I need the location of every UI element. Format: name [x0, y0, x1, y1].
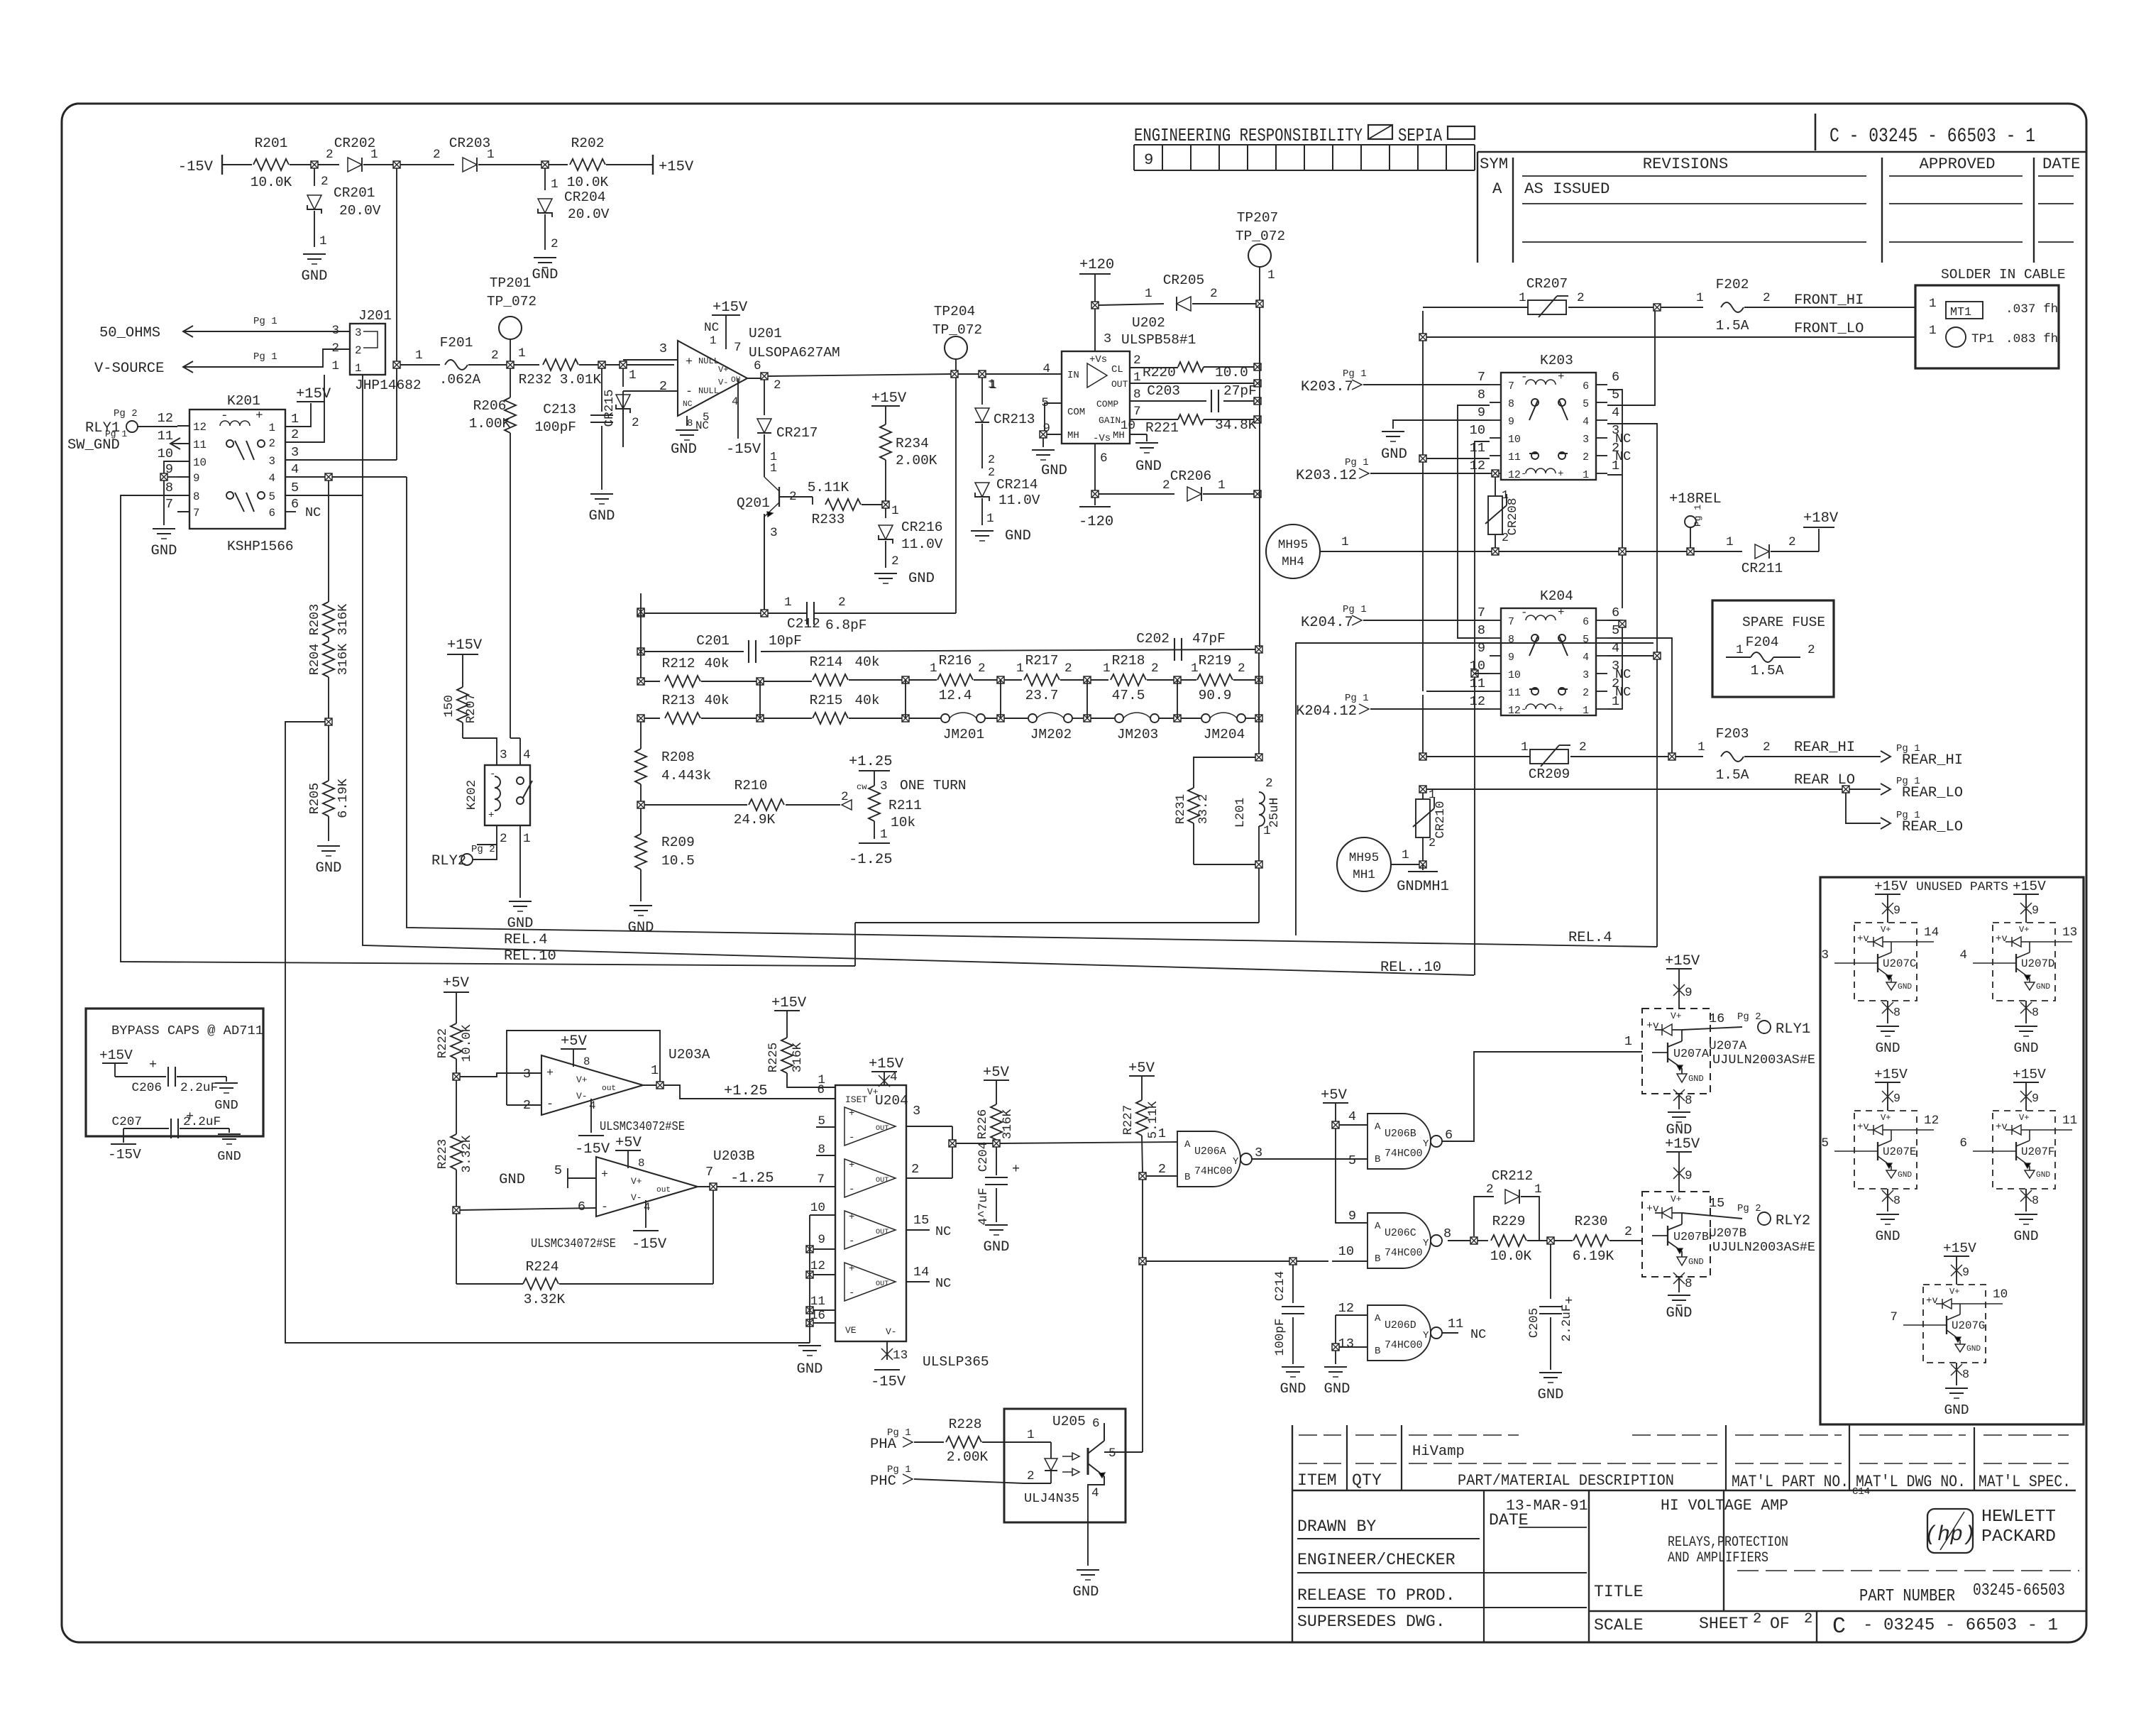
- svg-text:-: -: [849, 1236, 854, 1247]
- svg-text:V+: V+: [1881, 1113, 1891, 1123]
- parts list / title block grid: [1292, 1425, 1293, 1642]
- nand gate U206D 74HC00: [1368, 1305, 1431, 1361]
- svg-text:1: 1: [1402, 848, 1409, 862]
- U201 -15V supply: [737, 378, 739, 439]
- svg-text:14: 14: [913, 1265, 929, 1280]
- svg-text:11: 11: [1448, 1317, 1463, 1331]
- unused driver U207G: [1923, 1285, 1986, 1363]
- svg-text:6.8pF: 6.8pF: [825, 617, 867, 633]
- ladder column joiners: [759, 681, 761, 718]
- K201 pin1 wire to +15V: [285, 403, 311, 427]
- svg-text:MH: MH: [1067, 430, 1079, 441]
- svg-text:-: -: [849, 1287, 854, 1299]
- jumper JM203: [1115, 714, 1123, 723]
- svg-text:BYPASS CAPS @ AD711: BYPASS CAPS @ AD711: [111, 1023, 263, 1038]
- svg-text:FRONT_LO: FRONT_LO: [1794, 321, 1864, 337]
- ground below C204: [985, 1224, 1008, 1226]
- svg-text:2: 2: [1804, 1611, 1812, 1627]
- K201 coil: [220, 421, 250, 426]
- svg-text:CL: CL: [1111, 364, 1123, 375]
- svg-text:C205: C205: [1527, 1308, 1541, 1338]
- svg-text:9: 9: [1478, 405, 1485, 420]
- junction at TP201: [507, 361, 514, 368]
- mounting hole MH1: [1337, 837, 1391, 891]
- svg-text:Pg 1: Pg 1: [253, 316, 277, 327]
- capacitor C203 27pF: [1130, 400, 1206, 402]
- U204 amp2: [844, 1159, 896, 1197]
- svg-text:-15V: -15V: [871, 1374, 906, 1390]
- svg-text:NC: NC: [935, 1224, 951, 1239]
- resistor R224 3.32K feedback: [456, 1214, 457, 1284]
- resistor R208 4.443k: [640, 722, 642, 749]
- junction CR207/F202: [1653, 304, 1661, 311]
- K204 contacts: [1531, 634, 1539, 642]
- K201 pin4 wire to divider and REL.4 riser: [285, 476, 325, 478]
- ladder return wire to lower-left: [1258, 868, 1260, 923]
- U207A pin 8 ground: [1678, 1094, 1680, 1109]
- junction CR203/CR204: [541, 161, 549, 168]
- testpoint TP207 TP_072: [1248, 244, 1271, 267]
- svg-text:GND: GND: [1041, 463, 1067, 479]
- svg-text:GND: GND: [316, 860, 342, 877]
- svg-text:3: 3: [355, 326, 361, 339]
- svg-text:V+: V+: [2019, 925, 2030, 935]
- wire R208 node to R210: [644, 804, 747, 806]
- net REL.4 wire: [407, 477, 1657, 947]
- svg-text:ULSPB58#1: ULSPB58#1: [1121, 332, 1196, 348]
- K202 pin2 RLY2: [496, 825, 497, 845]
- svg-text:10: 10: [1508, 434, 1521, 446]
- resistor R204 316K: [328, 637, 329, 642]
- ground at C207: [218, 1133, 241, 1135]
- svg-text:R209: R209: [661, 835, 695, 850]
- zener CR204 20.0V: [544, 168, 546, 190]
- svg-text:OUT: OUT: [1111, 379, 1128, 390]
- K204 bottom coil: [1526, 704, 1556, 709]
- svg-text:K201: K201: [227, 393, 260, 409]
- svg-text:7: 7: [1133, 405, 1141, 419]
- svg-text:Pg 2: Pg 2: [471, 844, 495, 855]
- svg-text:10.0K: 10.0K: [1490, 1248, 1532, 1264]
- svg-text:F204: F204: [1746, 634, 1779, 650]
- svg-text:Pg 2: Pg 2: [114, 408, 138, 419]
- svg-text:FRONT_HI: FRONT_HI: [1794, 292, 1864, 309]
- svg-text:2: 2: [551, 237, 558, 251]
- svg-text:R201: R201: [255, 136, 288, 151]
- U202 output bus TP207 riser: [1259, 307, 1260, 647]
- capacitor C207 2.2uF: [123, 1128, 169, 1129]
- junction on F201 node: [393, 361, 400, 368]
- svg-text:PHA: PHA: [870, 1436, 897, 1453]
- K204 top coil: [1526, 615, 1556, 620]
- svg-text:10: 10: [158, 446, 173, 461]
- svg-text:DATE: DATE: [2042, 155, 2081, 173]
- svg-text:+5V: +5V: [983, 1065, 1010, 1081]
- svg-text:90.9: 90.9: [1199, 688, 1232, 703]
- svg-text:2: 2: [1162, 478, 1170, 493]
- svg-text:9: 9: [818, 1233, 825, 1247]
- svg-text:GND: GND: [984, 1239, 1010, 1256]
- svg-text:R204: R204: [307, 644, 322, 676]
- U205 LED: [1024, 1441, 1051, 1443]
- svg-text:+: +: [849, 1160, 854, 1171]
- svg-text:6: 6: [1959, 1136, 1967, 1150]
- svg-text:3: 3: [880, 779, 888, 793]
- svg-text:MAT'L SPEC.: MAT'L SPEC.: [1979, 1473, 2071, 1491]
- svg-text:6: 6: [269, 507, 275, 520]
- svg-text:74HC00: 74HC00: [1194, 1166, 1233, 1177]
- svg-text:1.5A: 1.5A: [1751, 663, 1784, 679]
- svg-text:CR207: CR207: [1526, 276, 1568, 292]
- svg-text:-: -: [1521, 606, 1527, 619]
- U204 outputs join: [923, 1126, 952, 1127]
- svg-text:4: 4: [1959, 948, 1967, 962]
- svg-text:3: 3: [913, 1104, 920, 1119]
- U206C B input bus wire: [1146, 1260, 1328, 1262]
- svg-text:2: 2: [1486, 1182, 1494, 1197]
- svg-text:REL.10: REL.10: [504, 948, 556, 965]
- svg-text:9: 9: [193, 472, 199, 485]
- svg-text:6: 6: [1092, 1417, 1100, 1431]
- resistor R203 316K: [328, 480, 329, 602]
- svg-text:Pg 1: Pg 1: [1343, 368, 1367, 380]
- U201 gnd: [686, 416, 688, 426]
- svg-text:316K: 316K: [336, 643, 351, 675]
- svg-text:U206B: U206B: [1385, 1128, 1416, 1140]
- U203A feedback to inverting input: [507, 1031, 660, 1105]
- svg-text:2: 2: [988, 466, 995, 480]
- resistor R201 10.0K: [253, 159, 289, 170]
- svg-text:R230: R230: [1575, 1214, 1608, 1229]
- svg-text:.062A: .062A: [439, 372, 481, 388]
- U207E input wire: [1834, 1150, 1860, 1152]
- svg-text:U207A: U207A: [1673, 1048, 1709, 1061]
- svg-text:REVISIONS: REVISIONS: [1643, 155, 1728, 173]
- svg-text:+5V: +5V: [1128, 1060, 1155, 1077]
- svg-text:2: 2: [355, 344, 361, 357]
- svg-text:2: 2: [1763, 740, 1771, 754]
- svg-text:CR209: CR209: [1529, 767, 1570, 782]
- K204 pin stubs: [1490, 620, 1501, 621]
- svg-text:7: 7: [1508, 381, 1514, 392]
- svg-text:12: 12: [158, 411, 173, 426]
- svg-text:50_OHMS: 50_OHMS: [99, 325, 160, 341]
- svg-text:+15V: +15V: [1943, 1241, 1976, 1256]
- svg-text:10.0K: 10.0K: [567, 175, 609, 190]
- svg-text:316K: 316K: [1001, 1109, 1015, 1139]
- U206C output row to R229: [1448, 1240, 1470, 1241]
- svg-text:9: 9: [1685, 1169, 1693, 1183]
- svg-text:2: 2: [1583, 688, 1589, 699]
- svg-text:2.2uF: 2.2uF: [180, 1081, 218, 1095]
- nand gate U206A 74HC00: [1177, 1131, 1240, 1187]
- junction R229/R230: [1547, 1237, 1554, 1244]
- svg-text:V+: V+: [1671, 1011, 1682, 1021]
- svg-text:1: 1: [1929, 324, 1937, 338]
- svg-text:1: 1: [1145, 287, 1152, 301]
- svg-text:V+: V+: [867, 1087, 879, 1097]
- svg-text:2: 2: [321, 175, 329, 189]
- K204 pin4 REL wire: [1607, 655, 1653, 657]
- U207B output to RLY2: [1682, 1213, 1742, 1219]
- svg-text:12: 12: [1470, 458, 1485, 473]
- svg-text:Pg 1: Pg 1: [1345, 457, 1369, 468]
- svg-text:V+: V+: [718, 365, 729, 375]
- svg-text:GND: GND: [1898, 1171, 1912, 1180]
- svg-text:2: 2: [1064, 661, 1072, 676]
- svg-text:1: 1: [1191, 661, 1199, 676]
- svg-text:1: 1: [523, 832, 531, 846]
- svg-text:GND: GND: [1875, 1040, 1900, 1056]
- K201 contacts upper: [226, 440, 233, 447]
- svg-text:9: 9: [1508, 417, 1514, 428]
- capacitor C201 10pF: [637, 648, 644, 655]
- svg-text:10.0K: 10.0K: [460, 1024, 474, 1062]
- svg-text:1: 1: [1624, 1034, 1632, 1049]
- svg-text:40k: 40k: [704, 656, 729, 671]
- svg-text:Pg 1: Pg 1: [253, 351, 277, 363]
- ground at K203 pin9: [1382, 431, 1404, 432]
- svg-text:1: 1: [1929, 297, 1937, 311]
- svg-text:Pg 2: Pg 2: [1737, 1011, 1761, 1023]
- svg-text:+15V: +15V: [659, 159, 694, 175]
- svg-text:C213: C213: [543, 402, 576, 417]
- svg-text:Y: Y: [1423, 1330, 1429, 1341]
- svg-text:GND: GND: [302, 268, 328, 285]
- K201 pin stubs and numbers: [177, 425, 189, 427]
- svg-text:7: 7: [165, 497, 173, 512]
- svg-text:AND AMPLIFIERS: AND AMPLIFIERS: [1668, 1550, 1768, 1566]
- svg-text:PART/MATERIAL DESCRIPTION: PART/MATERIAL DESCRIPTION: [1458, 1471, 1674, 1490]
- driver U207B: [1642, 1192, 1710, 1277]
- svg-text:R226: R226: [976, 1109, 990, 1139]
- svg-text:U206D: U206D: [1385, 1320, 1416, 1331]
- svg-text:HiVamp: HiVamp: [1412, 1444, 1465, 1460]
- svg-text:2: 2: [1210, 287, 1218, 301]
- resistor R205 6.19K: [323, 781, 334, 816]
- svg-text:10.0K: 10.0K: [251, 175, 292, 190]
- resistor R222 10.0K: [451, 1023, 462, 1059]
- svg-text:316K: 316K: [336, 603, 351, 635]
- svg-text:A: A: [1375, 1121, 1381, 1133]
- net REAR_LO second ref: [1846, 793, 1881, 823]
- svg-text:K204: K204: [1540, 588, 1573, 604]
- svg-text:U207A: U207A: [1709, 1039, 1746, 1053]
- svg-text:+: +: [1012, 1162, 1020, 1177]
- wire divider tap to lower amp section: [285, 722, 810, 1343]
- svg-text:GND: GND: [1875, 1229, 1900, 1244]
- svg-text:74HC00: 74HC00: [1385, 1340, 1423, 1351]
- U207A output to RLY1: [1682, 1027, 1742, 1030]
- svg-text:SHEET: SHEET: [1699, 1615, 1749, 1633]
- svg-text:+15V: +15V: [869, 1056, 904, 1072]
- svg-text:3: 3: [1821, 948, 1829, 962]
- U207B pin 8 ground: [1678, 1277, 1680, 1292]
- resistor R232 3.01K: [543, 359, 578, 370]
- svg-text:-15V: -15V: [726, 441, 761, 458]
- net GNDMH1: [1422, 864, 1424, 870]
- svg-text:16: 16: [1709, 1011, 1724, 1026]
- svg-text:REAR_HI: REAR_HI: [1902, 752, 1963, 769]
- drawn-by block: [1483, 1490, 1485, 1642]
- svg-text:R223: R223: [436, 1139, 450, 1169]
- svg-text:-1.25: -1.25: [730, 1170, 774, 1187]
- svg-text:+15V: +15V: [2013, 879, 2046, 894]
- svg-text:GND: GND: [2013, 1229, 2038, 1244]
- svg-text:9: 9: [2032, 904, 2039, 918]
- svg-text:ITEM: ITEM: [1297, 1471, 1337, 1490]
- svg-text:NC: NC: [683, 400, 693, 409]
- svg-text:+v: +v: [1857, 1121, 1869, 1133]
- svg-text:-: -: [546, 1098, 554, 1111]
- svg-text:1: 1: [1341, 535, 1349, 549]
- svg-text:U201: U201: [749, 326, 782, 341]
- svg-text:+: +: [546, 1067, 554, 1080]
- svg-text:8: 8: [1685, 1094, 1693, 1108]
- svg-text:R219: R219: [1199, 653, 1232, 669]
- svg-text:ENGINEERING RESPONSIBILITY: ENGINEERING RESPONSIBILITY: [1134, 125, 1363, 146]
- op-amp U203A ULSMC34072#SE: [541, 1055, 643, 1115]
- svg-text:11: 11: [1508, 452, 1521, 463]
- svg-text:1: 1: [1158, 1126, 1166, 1141]
- svg-text:12: 12: [1508, 470, 1521, 481]
- svg-text:R206: R206: [473, 398, 507, 414]
- svg-text:NC: NC: [704, 321, 719, 335]
- svg-text:CR214: CR214: [996, 477, 1038, 493]
- K202 pin4 wire from TP201 node: [510, 737, 520, 739]
- svg-text:+: +: [255, 409, 263, 423]
- unused driver U207D: [1993, 923, 2055, 1001]
- svg-text:+120: +120: [1079, 257, 1114, 273]
- svg-text:R208: R208: [661, 749, 695, 765]
- svg-text:11: 11: [193, 439, 207, 451]
- resistor R229 10.0K: [1491, 1235, 1526, 1246]
- svg-text:7: 7: [734, 341, 742, 355]
- svg-text:K202: K202: [465, 780, 479, 810]
- ground below C213: [590, 493, 613, 495]
- svg-text:GND: GND: [1135, 458, 1162, 475]
- svg-text:Pg 1: Pg 1: [1693, 505, 1703, 527]
- svg-text:03245-66503: 03245-66503: [1973, 1581, 2065, 1600]
- junction L201 bottom: [1255, 861, 1262, 868]
- svg-text:GND: GND: [217, 1149, 241, 1164]
- svg-text:1: 1: [1263, 824, 1271, 838]
- svg-text:15: 15: [913, 1213, 929, 1228]
- svg-text:5: 5: [291, 480, 299, 495]
- svg-text:1: 1: [818, 1073, 825, 1087]
- top-right drawing number header C - 03245 - 66503 - 1: [1478, 151, 2086, 153]
- svg-text:-: -: [601, 1201, 608, 1214]
- resistor R231 33.2 parallel inductor: [1194, 757, 1259, 788]
- svg-text:R210: R210: [734, 778, 768, 793]
- svg-text:V-: V-: [718, 378, 729, 388]
- svg-text:GND: GND: [1688, 1257, 1704, 1267]
- U206B supply riser to U206C input: [1336, 1128, 1368, 1223]
- svg-text:U205: U205: [1052, 1414, 1086, 1429]
- svg-text:9: 9: [1348, 1209, 1356, 1224]
- svg-text:-Vs: -Vs: [1093, 433, 1111, 444]
- ground below U206D inputs: [1335, 1351, 1336, 1364]
- svg-text:2: 2: [1429, 837, 1436, 850]
- svg-text:9: 9: [1685, 986, 1693, 1000]
- +18 bus to K204 area: [1622, 555, 1623, 608]
- svg-text:-: -: [849, 1132, 854, 1143]
- testpoint TP204 TP_072: [945, 336, 967, 359]
- svg-text:20.0V: 20.0V: [339, 203, 381, 219]
- K204 pin5 riser to F203 junction: [1607, 638, 1672, 757]
- svg-text:U207B: U207B: [1709, 1226, 1746, 1241]
- svg-text:8: 8: [1443, 1226, 1451, 1241]
- svg-text:CR203: CR203: [449, 136, 491, 151]
- svg-text:8: 8: [1508, 399, 1514, 410]
- svg-text:AS ISSUED: AS ISSUED: [1524, 180, 1609, 198]
- svg-text:7: 7: [1890, 1310, 1898, 1324]
- resistor R221 34.8K: [1130, 419, 1178, 420]
- svg-text:2: 2: [1807, 643, 1815, 657]
- svg-text:9: 9: [1893, 1092, 1900, 1106]
- svg-text:2: 2: [1577, 291, 1585, 305]
- svg-text:+v: +v: [1857, 933, 1869, 945]
- svg-text:C212: C212: [787, 616, 820, 632]
- svg-text:6: 6: [291, 497, 299, 512]
- svg-text:12.4: 12.4: [939, 688, 972, 703]
- svg-text:GND: GND: [1966, 1345, 1981, 1353]
- diode CR212 feedback: [1474, 1197, 1494, 1236]
- svg-text:3: 3: [500, 748, 507, 762]
- svg-text:OF: OF: [1770, 1615, 1790, 1633]
- svg-text:RELEASE TO PROD.: RELEASE TO PROD.: [1297, 1586, 1456, 1605]
- svg-text:R211: R211: [888, 798, 922, 813]
- U207F input wire: [1973, 1150, 1998, 1152]
- ground below C214: [1282, 1366, 1304, 1368]
- svg-text:8: 8: [1133, 388, 1141, 402]
- svg-text:R215: R215: [810, 693, 843, 708]
- svg-text:4: 4: [1348, 1109, 1356, 1124]
- svg-text:R217: R217: [1025, 653, 1059, 669]
- svg-text:2: 2: [1502, 532, 1509, 545]
- svg-text:-: -: [1521, 468, 1526, 480]
- svg-text:5: 5: [1108, 1446, 1116, 1461]
- svg-text:1: 1: [1519, 291, 1526, 305]
- svg-text:UJULN2003AS#E: UJULN2003AS#E: [1712, 1053, 1815, 1067]
- svg-text:12: 12: [1470, 694, 1485, 709]
- svg-text:CR204: CR204: [564, 189, 606, 205]
- svg-text:PART NUMBER: PART NUMBER: [1859, 1587, 1955, 1606]
- svg-text:JM201: JM201: [943, 727, 985, 742]
- svg-text:6: 6: [1100, 451, 1108, 466]
- svg-text:11.0V: 11.0V: [998, 493, 1040, 508]
- svg-text:40k: 40k: [704, 693, 729, 708]
- svg-text:U207B: U207B: [1673, 1231, 1709, 1244]
- svg-text:REL.4: REL.4: [504, 932, 548, 948]
- svg-text:V+: V+: [576, 1075, 588, 1085]
- svg-text:8: 8: [687, 418, 693, 429]
- svg-text:R232: R232: [519, 372, 552, 388]
- svg-text:+5V: +5V: [561, 1033, 588, 1050]
- svg-text:2: 2: [1763, 291, 1771, 305]
- wire CR209 feed from contact column: [1426, 756, 1530, 757]
- svg-text:2: 2: [1151, 661, 1159, 676]
- svg-text:MH1: MH1: [1353, 868, 1375, 882]
- svg-text:+: +: [849, 1108, 854, 1119]
- svg-text:2: 2: [891, 554, 899, 568]
- svg-text:2: 2: [1753, 1611, 1761, 1627]
- svg-text:11: 11: [1508, 688, 1521, 699]
- svg-text:1: 1: [629, 368, 637, 383]
- svg-text:4: 4: [589, 1099, 595, 1112]
- svg-text:R231: R231: [1174, 794, 1188, 824]
- svg-text:1: 1: [487, 148, 495, 162]
